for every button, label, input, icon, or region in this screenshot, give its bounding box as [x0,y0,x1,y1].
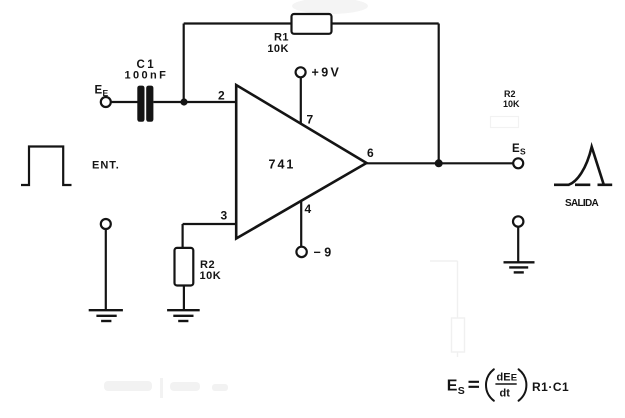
ghost bleed-through smudge bottom-left [104,378,228,398]
svg-text:10K: 10K [267,43,289,55]
svg-text:dE: dE [497,372,511,384]
ground: right [504,262,535,272]
capacitor C1 [125,59,169,122]
svg-text:E: E [447,378,458,395]
resistor R2 [175,248,222,286]
op-amp U1 741 [236,85,366,239]
svg-text:2: 2 [218,89,225,103]
node: junction input [180,98,187,105]
wire: pin 3 horizontal [183,223,237,225]
wire: R2 to ground [183,286,185,311]
svg-text:dt: dt [500,388,511,400]
svg-text:SALIDA: SALIDA [565,198,599,209]
wire: left feedback vertical [183,24,185,103]
ghost smudge above R1 [292,0,368,14]
ghost bleed-through vertical wire [430,261,465,357]
wire: top feedback horizontal [184,22,439,24]
wire: C1 to pin 2 [153,101,237,103]
svg-text:E: E [95,85,103,97]
svg-text:E: E [512,143,520,155]
svg-text:E: E [511,373,517,384]
wire: pin 4 to -9 [300,201,302,247]
svg-text:ENT.: ENT. [92,160,120,172]
formula ES = (dEE/dt) R1·C1 [447,369,569,400]
svg-text:741: 741 [269,158,296,172]
svg-text:10K: 10K [503,99,520,109]
wire: output pin 6 to ES [366,162,513,164]
wire: right feedback vertical [438,24,440,164]
svg-text:S: S [458,385,465,397]
svg-text:S: S [520,147,526,157]
svg-text:R1·C1: R1·C1 [532,380,569,394]
svg-text:E: E [103,88,109,98]
terminal +9V [296,66,342,80]
resistor R1 [267,14,331,55]
svg-text:7: 7 [307,113,314,127]
ground: mid left [89,310,123,321]
svg-text:10K: 10K [200,270,222,282]
svg-text:3: 3 [221,209,228,223]
svg-text:−9: −9 [314,246,335,260]
svg-text:+9V: +9V [312,66,342,80]
waveform: ENT input pulse [21,147,120,186]
ground: below R2 [167,310,200,321]
terminal -9 [296,246,334,260]
wire: EE terminal to C1 [111,101,138,103]
wire: pin 7 to +9V [300,77,302,124]
waveform: SALIDA output spike [554,147,612,209]
terminal ES output [512,143,526,168]
svg-text:100nF: 100nF [125,70,169,82]
svg-text:6: 6 [367,146,374,160]
node: output junction [435,159,443,167]
svg-text:R1: R1 [274,32,289,44]
svg-text:4: 4 [305,202,312,216]
ghost bleed-through resistor box [491,89,521,128]
terminal: mid ground with circle [101,219,111,310]
wire: pin 3 down to R2 [182,224,184,248]
terminal: right ground with circle [513,216,523,262]
terminal EE input [95,85,111,108]
svg-text:R2: R2 [504,89,516,99]
